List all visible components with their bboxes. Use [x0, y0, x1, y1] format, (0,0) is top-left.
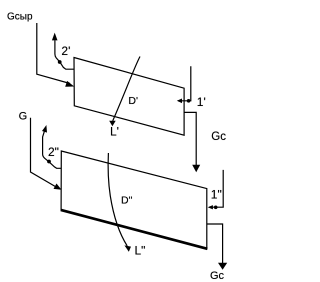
svg-text:Gс: Gс	[211, 131, 226, 143]
arrowhead 2" up	[42, 125, 47, 133]
svg-text:1": 1"	[211, 188, 222, 202]
arrowhead 1' left	[177, 99, 182, 104]
unit apparatus 2 (parallelogram)	[61, 151, 207, 249]
arc stream D"/L" through unit 2	[108, 153, 127, 246]
unit apparatus 1 (parallelogram)	[74, 58, 184, 136]
arrowhead 2' up	[52, 33, 58, 41]
wire stream 2"	[43, 132, 62, 169]
wire stream 1"	[209, 170, 223, 207]
svg-text:1': 1'	[197, 95, 206, 109]
bottom thick edge unit 2	[61, 210, 208, 249]
svg-text:L": L"	[135, 243, 146, 257]
svg-text:D": D"	[121, 195, 133, 207]
svg-text:2': 2'	[61, 44, 70, 58]
wire Gс output unit 2	[207, 224, 223, 263]
junction dot 2'	[58, 60, 62, 64]
arrowhead L"	[124, 245, 131, 251]
arrowhead 1" left	[208, 205, 213, 209]
junction dot 2"	[47, 160, 51, 164]
svg-text:Gс: Gс	[210, 270, 225, 282]
wire feed Gсыр vertical+diagonal	[37, 23, 70, 84]
arc stream D'/L' through unit 1	[113, 57, 140, 121]
arrowhead Gс down	[192, 165, 200, 173]
svg-text:2": 2"	[48, 145, 59, 159]
wire stream 1'	[178, 66, 191, 101]
wire stream 2'	[55, 40, 74, 69]
arrowhead Gс down bottom	[218, 263, 227, 270]
arrowhead L'	[109, 121, 116, 127]
svg-text:Gсыр: Gсыр	[7, 12, 33, 23]
svg-text:D': D'	[128, 95, 138, 107]
wire Gс from unit 1	[184, 112, 196, 165]
svg-text:G: G	[19, 111, 28, 123]
arrowhead feed Gсыр	[65, 81, 74, 87]
junction dot 1'	[187, 99, 191, 103]
svg-text:L': L'	[110, 125, 119, 139]
arrowhead feed G	[54, 184, 62, 190]
wire feed G vertical+diagonal	[31, 118, 58, 188]
junction dot 1"	[214, 206, 218, 210]
